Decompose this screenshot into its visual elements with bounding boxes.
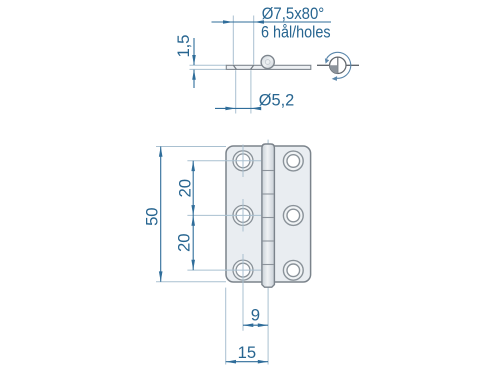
dimension line 50: [159, 147, 163, 282]
countersink section right wall: [251, 65, 254, 69]
hole centerline top (extension for 20): [187, 160, 261, 162]
dimension 1,5: [192, 38, 196, 88]
label Ø5,2: [259, 91, 295, 110]
label 9: [251, 306, 260, 325]
svg-text:9: 9: [251, 306, 260, 325]
extension line 50 bottom: [156, 281, 226, 283]
rotation arrow arc: [325, 52, 351, 81]
label 15: [238, 343, 257, 362]
countersink section left wall: [233, 65, 236, 69]
hole bottom-right: [283, 260, 303, 280]
extension line 15 left: [225, 288, 227, 365]
label 1,5 (rotated): [174, 35, 193, 58]
dimension line 20/20: [191, 161, 195, 270]
hole top-right: [283, 151, 303, 171]
barrel: [262, 144, 275, 287]
barrel knuckle circle (side view): [261, 55, 274, 68]
barrel centerline: [267, 140, 269, 365]
extension line 1,5 top: [190, 64, 227, 66]
hole centerline bottom: [187, 269, 261, 271]
extension line Ø5,2 left: [235, 70, 237, 113]
label 20 lower (rotated): [175, 233, 194, 252]
svg-text:Ø7,5x80°: Ø7,5x80°: [262, 4, 325, 23]
detail circle: [330, 57, 346, 73]
hole centerline middle (extension for 20): [187, 214, 261, 216]
dimension line 15: [226, 360, 268, 364]
svg-text:20: 20: [175, 233, 194, 252]
detail horizontal axis line: [317, 64, 359, 66]
countersunk hole top-left: [233, 151, 253, 171]
knuckle joint lines: [262, 171, 274, 265]
extension line Ø7,5 left: [232, 16, 234, 65]
label 20 upper (rotated): [175, 179, 194, 198]
countersunk hole middle-left: [233, 205, 253, 225]
extension line Ø7,5 right: [253, 16, 255, 65]
countersunk hole bottom-left: [233, 260, 253, 280]
dimension line Ø5,2: [215, 107, 261, 111]
hole vertical centerline bottom (extension for 9): [242, 254, 244, 331]
label 50 (rotated): [142, 207, 161, 226]
extension line 1,5 bottom: [190, 68, 227, 70]
hole vertical centerline middle: [242, 199, 244, 232]
hole vertical centerline top: [242, 145, 244, 178]
label Ø7,5x80°: [262, 4, 325, 23]
svg-text:15: 15: [238, 343, 257, 362]
label 6 hål/holes: [261, 23, 331, 42]
extension line Ø5,2 right: [250, 70, 252, 113]
hinge leaf side-view bar: [226, 65, 310, 69]
dimension line 9: [243, 323, 268, 327]
svg-text:1,5: 1,5: [174, 35, 193, 58]
hole middle-right: [283, 206, 303, 226]
dimension line Ø7,5x80° with shelf: [212, 20, 332, 24]
extension line 50 top: [156, 146, 226, 148]
svg-text:20: 20: [175, 179, 194, 198]
hinge body outline: [226, 146, 311, 282]
svg-text:50: 50: [142, 207, 161, 226]
svg-text:6 hål/holes: 6 hål/holes: [261, 23, 331, 42]
svg-text:Ø5,2: Ø5,2: [259, 91, 295, 110]
